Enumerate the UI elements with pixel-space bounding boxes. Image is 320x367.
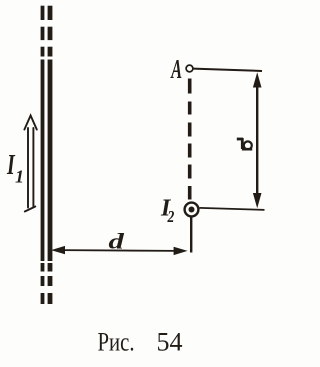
svg-text:2: 2 <box>167 208 175 227</box>
svg-text:1: 1 <box>15 167 24 187</box>
svg-text:54: 54 <box>157 328 183 357</box>
svg-text:d: d <box>109 228 125 253</box>
svg-text:A: A <box>170 54 182 84</box>
svg-text:Рис.: Рис. <box>98 328 135 357</box>
